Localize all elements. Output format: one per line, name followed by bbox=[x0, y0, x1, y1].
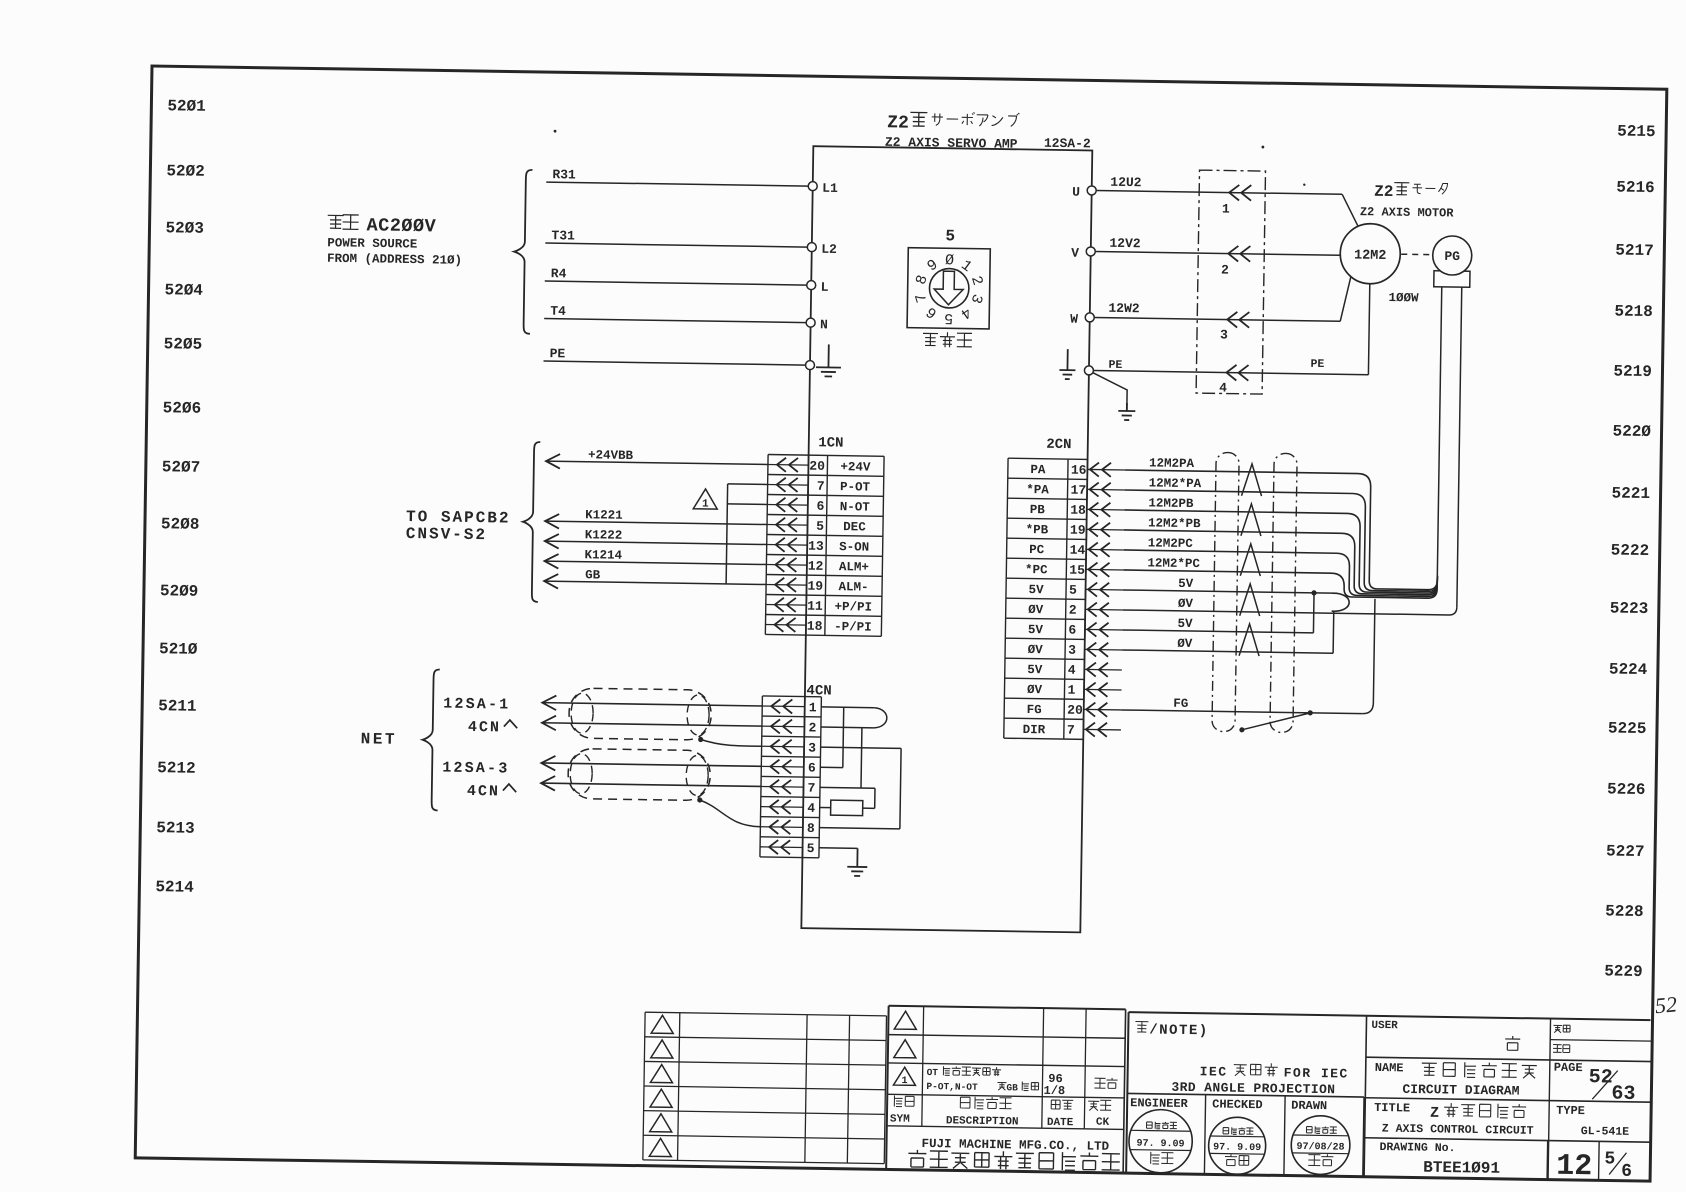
svg-text:12V2: 12V2 bbox=[1109, 236, 1141, 251]
svg-text:5221: 5221 bbox=[1611, 484, 1650, 503]
svg-text:15: 15 bbox=[1069, 563, 1085, 578]
svg-text:POWER SOURCE: POWER SOURCE bbox=[327, 236, 417, 251]
svg-text:5: 5 bbox=[816, 519, 824, 534]
svg-text:17: 17 bbox=[1070, 483, 1086, 498]
svg-text:5V: 5V bbox=[1177, 617, 1193, 631]
svg-text:/NOTE): /NOTE) bbox=[1149, 1022, 1209, 1039]
svg-text:52Ø2: 52Ø2 bbox=[166, 162, 205, 181]
svg-text:5229: 5229 bbox=[1604, 962, 1643, 981]
svg-text:12W2: 12W2 bbox=[1108, 301, 1140, 316]
svg-text:5: 5 bbox=[1069, 583, 1077, 598]
svg-text:6: 6 bbox=[808, 761, 816, 776]
svg-text:DATE: DATE bbox=[1047, 1117, 1074, 1129]
svg-text:*PA: *PA bbox=[1026, 483, 1049, 497]
svg-text:DRAWN: DRAWN bbox=[1291, 1099, 1327, 1114]
svg-text:12M2*PC: 12M2*PC bbox=[1147, 556, 1200, 571]
svg-text:DEC: DEC bbox=[843, 520, 866, 534]
svg-text:18: 18 bbox=[807, 619, 823, 634]
svg-text:P-OT,N-OT: P-OT,N-OT bbox=[926, 1081, 978, 1093]
svg-text:Ø: Ø bbox=[945, 252, 954, 269]
svg-text:3: 3 bbox=[1068, 643, 1076, 658]
svg-text:PE: PE bbox=[1310, 358, 1324, 371]
svg-text:5V: 5V bbox=[1028, 583, 1044, 597]
svg-text:Z2 AXIS MOTOR: Z2 AXIS MOTOR bbox=[1360, 205, 1455, 220]
svg-text:2CN: 2CN bbox=[1046, 437, 1071, 453]
svg-text:CK: CK bbox=[1096, 1117, 1110, 1129]
svg-text:52: 52 bbox=[1654, 991, 1678, 1018]
svg-text:+24V: +24V bbox=[840, 460, 871, 474]
svg-text:521Ø: 521Ø bbox=[159, 640, 198, 659]
svg-text:52Ø6: 52Ø6 bbox=[163, 399, 202, 418]
svg-text:FROM (ADDRESS 21Ø): FROM (ADDRESS 21Ø) bbox=[327, 252, 462, 268]
svg-text:CNSV-S2: CNSV-S2 bbox=[406, 525, 487, 544]
svg-text:FOR IEC: FOR IEC bbox=[1284, 1066, 1349, 1082]
svg-text:12SA-3: 12SA-3 bbox=[442, 760, 509, 778]
svg-text:Z2 AXIS SERVO AMP: Z2 AXIS SERVO AMP bbox=[885, 135, 1018, 152]
svg-text:1: 1 bbox=[901, 1076, 907, 1087]
svg-text:5225: 5225 bbox=[1608, 719, 1647, 738]
svg-text:5219: 5219 bbox=[1613, 362, 1652, 381]
svg-text:1: 1 bbox=[1067, 683, 1075, 698]
svg-text:PA: PA bbox=[1030, 463, 1046, 477]
svg-text:52Ø9: 52Ø9 bbox=[160, 582, 199, 601]
svg-text:97. 9.09: 97. 9.09 bbox=[1213, 1142, 1261, 1154]
svg-text:52: 52 bbox=[1588, 1066, 1612, 1089]
svg-text:ØV: ØV bbox=[1178, 597, 1194, 611]
svg-text:12U2: 12U2 bbox=[1110, 175, 1142, 190]
svg-text:5214: 5214 bbox=[155, 878, 194, 897]
svg-text:1: 1 bbox=[809, 700, 817, 715]
svg-text:FG: FG bbox=[1027, 703, 1042, 717]
svg-text:12M2PB: 12M2PB bbox=[1148, 496, 1194, 511]
svg-text:12: 12 bbox=[808, 559, 824, 574]
svg-text:PAGE: PAGE bbox=[1554, 1061, 1583, 1075]
svg-text:8: 8 bbox=[807, 821, 815, 836]
svg-text:SYM: SYM bbox=[890, 1113, 910, 1125]
svg-text:PC: PC bbox=[1029, 543, 1045, 557]
svg-text:N: N bbox=[820, 317, 828, 332]
svg-text:12M2: 12M2 bbox=[1354, 248, 1387, 263]
svg-text:ØV: ØV bbox=[1027, 683, 1043, 697]
svg-text:52Ø5: 52Ø5 bbox=[164, 335, 203, 354]
svg-text:1: 1 bbox=[1222, 201, 1230, 216]
svg-text:CIRCUIT DIAGRAM: CIRCUIT DIAGRAM bbox=[1402, 1082, 1519, 1099]
svg-text:19: 19 bbox=[807, 579, 823, 594]
svg-text:5212: 5212 bbox=[157, 759, 196, 778]
svg-text:Z2: Z2 bbox=[1374, 183, 1393, 201]
svg-text:U: U bbox=[1072, 185, 1080, 200]
svg-text:5211: 5211 bbox=[158, 697, 197, 716]
svg-text:PB: PB bbox=[1030, 503, 1046, 517]
svg-text:5V: 5V bbox=[1027, 663, 1043, 677]
svg-text:5V: 5V bbox=[1178, 577, 1194, 591]
svg-text:1ØØW: 1ØØW bbox=[1388, 291, 1419, 305]
svg-text:5: 5 bbox=[944, 309, 953, 326]
svg-text:R4: R4 bbox=[551, 266, 567, 281]
svg-text:52Ø7: 52Ø7 bbox=[162, 458, 201, 477]
svg-text:5: 5 bbox=[1604, 1149, 1615, 1169]
svg-text:4CN: 4CN bbox=[467, 783, 500, 801]
svg-text:7: 7 bbox=[817, 479, 825, 494]
svg-text:PG: PG bbox=[1444, 249, 1460, 264]
svg-text:Z: Z bbox=[1430, 1105, 1439, 1122]
svg-text:T4: T4 bbox=[550, 304, 566, 319]
svg-text:ØV: ØV bbox=[1028, 603, 1044, 617]
svg-text:2: 2 bbox=[1069, 603, 1077, 618]
svg-text:5228: 5228 bbox=[1605, 902, 1644, 921]
svg-text:4: 4 bbox=[807, 801, 815, 816]
svg-text:18: 18 bbox=[1070, 503, 1086, 518]
svg-text:5213: 5213 bbox=[156, 819, 195, 838]
svg-text:DRAWING No.: DRAWING No. bbox=[1379, 1141, 1455, 1155]
svg-text:ALM+: ALM+ bbox=[839, 560, 869, 574]
svg-text:5216: 5216 bbox=[1616, 179, 1655, 198]
svg-text:+P/PI: +P/PI bbox=[834, 600, 872, 615]
svg-text:USER: USER bbox=[1371, 1020, 1398, 1032]
svg-text:1/8: 1/8 bbox=[1043, 1084, 1065, 1098]
svg-text:GB: GB bbox=[585, 568, 601, 582]
svg-text:4: 4 bbox=[1219, 380, 1227, 395]
svg-text:PE: PE bbox=[550, 346, 566, 361]
svg-text:K1221: K1221 bbox=[585, 508, 623, 523]
svg-text:12M2*PB: 12M2*PB bbox=[1148, 516, 1201, 531]
svg-text:5V: 5V bbox=[1028, 623, 1044, 637]
svg-text:2: 2 bbox=[808, 720, 816, 735]
svg-text:Z AXIS CONTROL CIRCUIT: Z AXIS CONTROL CIRCUIT bbox=[1382, 1123, 1534, 1138]
svg-text:-P/PI: -P/PI bbox=[834, 620, 872, 635]
svg-text:DESCRIPTION: DESCRIPTION bbox=[946, 1115, 1019, 1128]
svg-text:DIR: DIR bbox=[1023, 723, 1046, 737]
svg-text:12M2*PA: 12M2*PA bbox=[1149, 476, 1202, 491]
svg-text:TYPE: TYPE bbox=[1556, 1104, 1585, 1118]
svg-text:ØV: ØV bbox=[1177, 637, 1193, 651]
svg-text:ALM-: ALM- bbox=[838, 580, 868, 594]
svg-text:Z2: Z2 bbox=[887, 113, 909, 133]
svg-text:5: 5 bbox=[807, 841, 815, 856]
svg-text:16: 16 bbox=[1071, 463, 1087, 478]
svg-text:NAME: NAME bbox=[1375, 1061, 1404, 1075]
svg-text:6: 6 bbox=[1621, 1162, 1632, 1182]
svg-text:+24VBB: +24VBB bbox=[588, 448, 634, 463]
svg-text:52Ø8: 52Ø8 bbox=[161, 515, 200, 534]
svg-text:4: 4 bbox=[1068, 663, 1076, 678]
svg-text:5224: 5224 bbox=[1609, 660, 1648, 679]
svg-text:3: 3 bbox=[808, 740, 816, 755]
svg-text:12: 12 bbox=[1556, 1150, 1593, 1185]
svg-text:FG: FG bbox=[1173, 697, 1188, 711]
svg-text:7: 7 bbox=[1067, 723, 1075, 738]
svg-text:97. 9.09: 97. 9.09 bbox=[1136, 1139, 1184, 1151]
svg-text:14: 14 bbox=[1070, 543, 1086, 558]
svg-text:13: 13 bbox=[808, 539, 824, 554]
svg-text:5218: 5218 bbox=[1614, 302, 1653, 321]
svg-text:5227: 5227 bbox=[1606, 842, 1645, 861]
svg-text:CHECKED: CHECKED bbox=[1212, 1097, 1263, 1112]
svg-text:BTEE1Ø91: BTEE1Ø91 bbox=[1423, 1159, 1500, 1178]
svg-text:5226: 5226 bbox=[1607, 780, 1646, 799]
svg-text:AC2ØØV: AC2ØØV bbox=[366, 215, 436, 237]
svg-text:522Ø: 522Ø bbox=[1612, 422, 1651, 441]
svg-text:ENGINEER: ENGINEER bbox=[1130, 1096, 1189, 1111]
svg-text:7: 7 bbox=[807, 781, 815, 796]
svg-text:5215: 5215 bbox=[1617, 123, 1656, 142]
svg-text:*PC: *PC bbox=[1025, 563, 1048, 577]
svg-text:L2: L2 bbox=[821, 242, 837, 257]
svg-text:1: 1 bbox=[702, 498, 709, 510]
svg-text:11: 11 bbox=[807, 599, 823, 614]
svg-text:V: V bbox=[1071, 246, 1079, 261]
svg-text:N-OT: N-OT bbox=[840, 500, 871, 514]
svg-text:5223: 5223 bbox=[1610, 599, 1649, 618]
svg-text:K1214: K1214 bbox=[584, 548, 622, 563]
svg-text:T31: T31 bbox=[551, 228, 575, 243]
svg-text:L: L bbox=[821, 280, 829, 295]
svg-text:3: 3 bbox=[1220, 327, 1228, 342]
svg-text:52Ø1: 52Ø1 bbox=[167, 97, 206, 116]
svg-text:1CN: 1CN bbox=[818, 435, 843, 451]
svg-text:20: 20 bbox=[1067, 703, 1083, 718]
svg-text:52Ø3: 52Ø3 bbox=[165, 219, 204, 238]
svg-text:52Ø4: 52Ø4 bbox=[164, 281, 203, 300]
svg-text:L1: L1 bbox=[822, 181, 838, 196]
svg-text:TITLE: TITLE bbox=[1374, 1101, 1410, 1116]
svg-text:12SA-2: 12SA-2 bbox=[1044, 136, 1091, 152]
svg-text:5: 5 bbox=[945, 227, 955, 245]
svg-text:6: 6 bbox=[816, 499, 824, 514]
svg-text:*PB: *PB bbox=[1026, 523, 1049, 537]
svg-text:4CN: 4CN bbox=[468, 719, 501, 737]
svg-text:5217: 5217 bbox=[1615, 241, 1654, 260]
svg-text:5222: 5222 bbox=[1611, 541, 1650, 560]
svg-text:GL-541E: GL-541E bbox=[1581, 1125, 1630, 1139]
svg-text:97/08/28: 97/08/28 bbox=[1296, 1141, 1344, 1154]
svg-text:R31: R31 bbox=[552, 167, 576, 182]
svg-text:NET: NET bbox=[361, 730, 398, 749]
svg-text:PE: PE bbox=[1108, 359, 1122, 372]
svg-text:P-OT: P-OT bbox=[840, 480, 871, 494]
svg-text:20: 20 bbox=[809, 459, 825, 474]
svg-text:12M2PC: 12M2PC bbox=[1148, 536, 1194, 551]
svg-text:GB: GB bbox=[1006, 1082, 1018, 1093]
svg-text:63: 63 bbox=[1611, 1083, 1635, 1106]
svg-text:19: 19 bbox=[1070, 523, 1086, 538]
svg-text:12SA-1: 12SA-1 bbox=[443, 696, 510, 714]
svg-text:IEC: IEC bbox=[1200, 1064, 1228, 1079]
svg-text:W: W bbox=[1070, 312, 1078, 327]
svg-text:2: 2 bbox=[1221, 262, 1229, 277]
svg-text:ØV: ØV bbox=[1028, 643, 1044, 657]
svg-text:FUJI MACHINE MFG.CO., LTD: FUJI MACHINE MFG.CO., LTD bbox=[921, 1137, 1109, 1154]
svg-text:12M2PA: 12M2PA bbox=[1149, 456, 1195, 471]
svg-text:OT: OT bbox=[927, 1067, 939, 1078]
svg-text:6: 6 bbox=[1068, 623, 1076, 638]
svg-text:K1222: K1222 bbox=[585, 528, 623, 543]
svg-text:S-ON: S-ON bbox=[839, 540, 869, 554]
